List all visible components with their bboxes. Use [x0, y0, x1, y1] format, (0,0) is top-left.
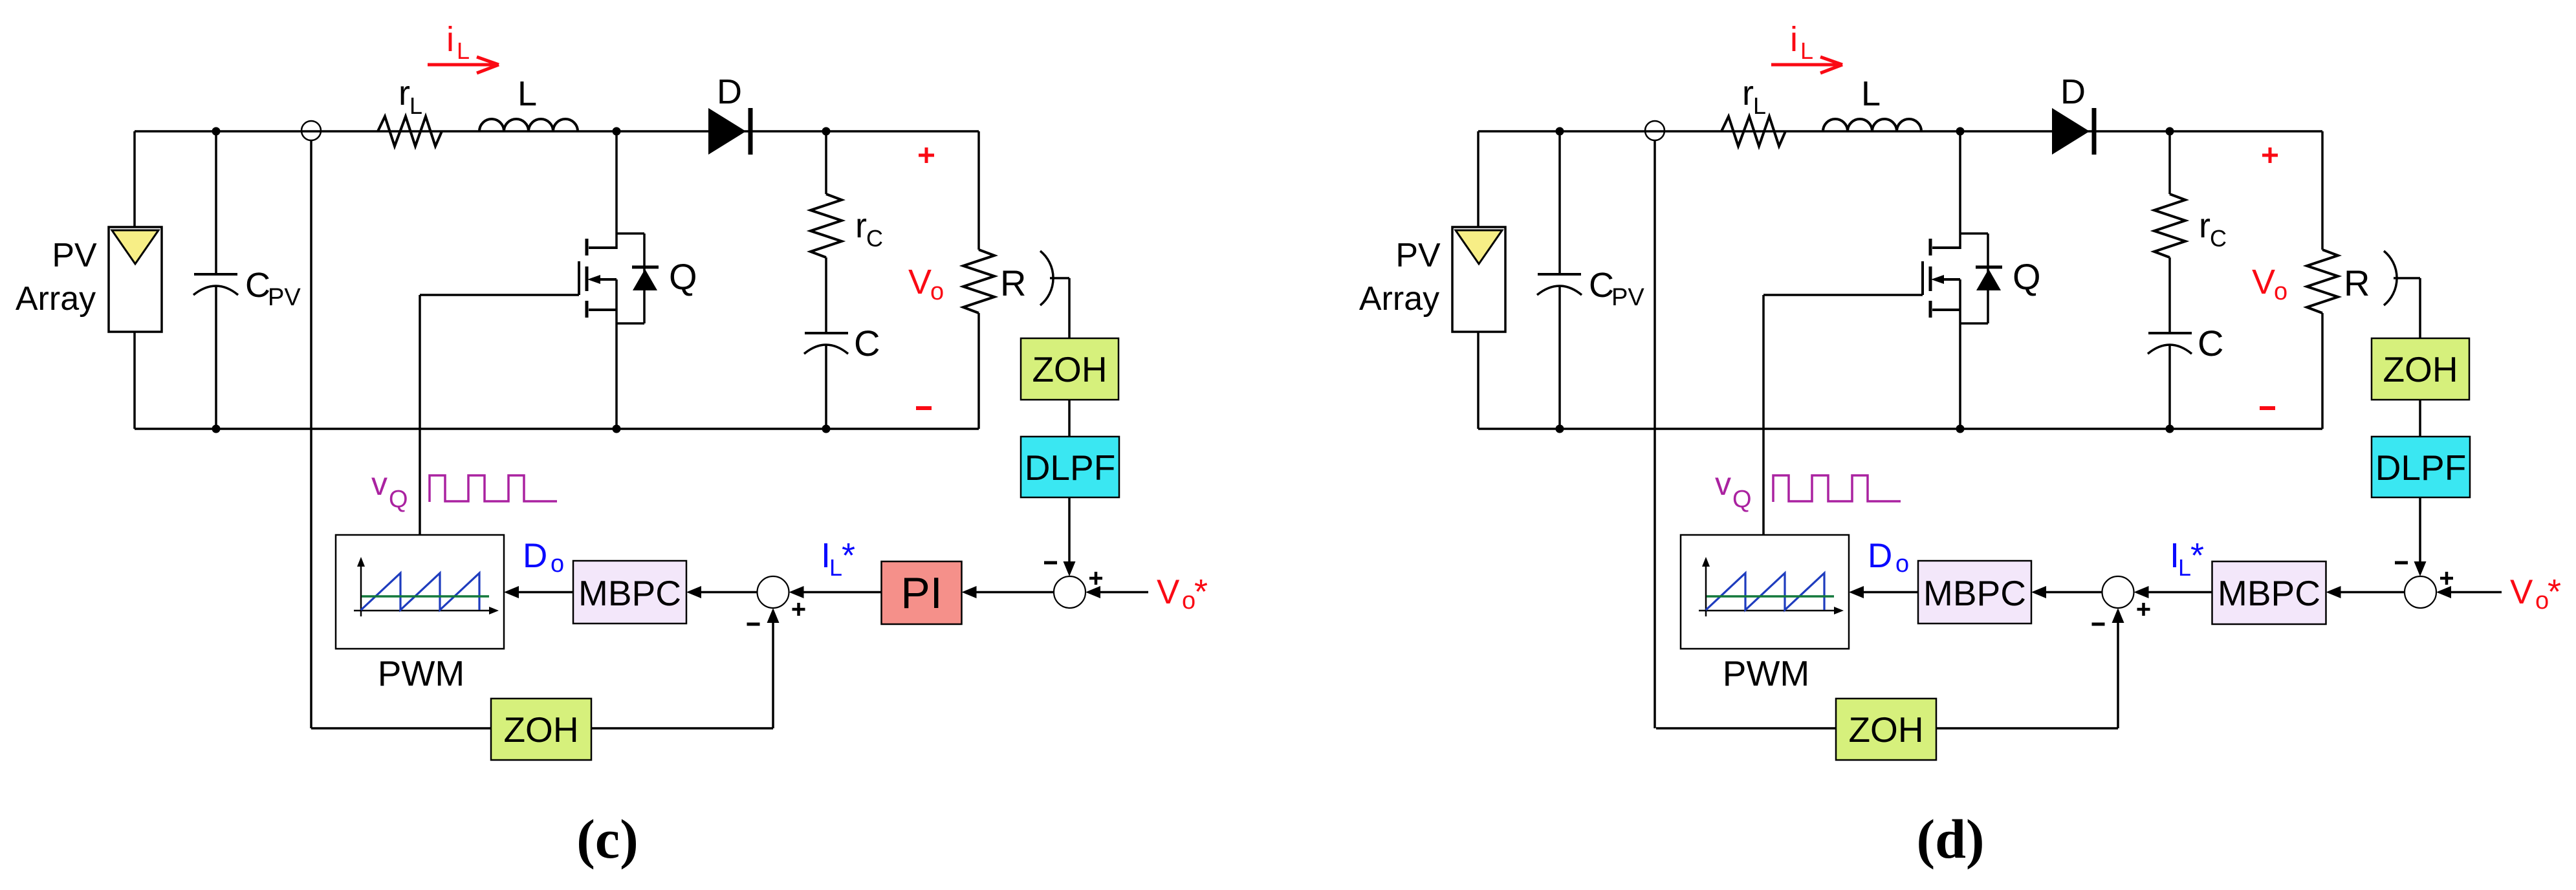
svg-text:Q: Q: [389, 486, 408, 513]
svg-text:Array: Array: [16, 280, 96, 318]
svg-text:D: D: [1868, 537, 1892, 575]
svg-text:ZOH: ZOH: [503, 710, 578, 750]
svg-text:PV: PV: [1611, 284, 1644, 311]
svg-text:r: r: [855, 206, 867, 245]
svg-text:V: V: [2252, 263, 2275, 301]
svg-text:D: D: [523, 537, 547, 575]
svg-text:L: L: [2178, 554, 2191, 581]
svg-text:C: C: [2210, 225, 2227, 252]
svg-text:DLPF: DLPF: [1025, 448, 1116, 488]
svg-text:i: i: [446, 20, 454, 59]
svg-text:o: o: [551, 550, 564, 578]
svg-text:L: L: [409, 92, 422, 119]
svg-text:Array: Array: [1359, 280, 1439, 318]
svg-text:C: C: [866, 225, 883, 252]
svg-text:r: r: [1742, 74, 1754, 113]
svg-text:MBPC: MBPC: [578, 573, 681, 613]
svg-text:o: o: [1895, 550, 1909, 578]
svg-text:Q: Q: [669, 256, 697, 297]
svg-text:PV: PV: [268, 284, 301, 311]
svg-text:L: L: [518, 74, 537, 113]
svg-text:Q: Q: [1732, 486, 1752, 513]
svg-text:PI: PI: [901, 569, 942, 618]
svg-text:L: L: [1753, 92, 1766, 119]
svg-text:R: R: [2344, 263, 2370, 303]
svg-text:MBPC: MBPC: [1923, 573, 2026, 613]
svg-text:o: o: [1182, 587, 1195, 614]
svg-text:L: L: [829, 554, 842, 581]
svg-text:PV: PV: [1395, 237, 1441, 274]
svg-text:o: o: [2535, 587, 2549, 614]
svg-text:PWM: PWM: [378, 653, 464, 693]
svg-text:o: o: [930, 278, 944, 305]
svg-text:Q: Q: [2013, 256, 2041, 297]
svg-text:v: v: [1715, 466, 1731, 502]
svg-text:ZOH: ZOH: [1848, 710, 1923, 750]
svg-text:(d): (d): [1916, 808, 1984, 870]
svg-text:*: *: [2190, 536, 2204, 575]
svg-text:ZOH: ZOH: [1032, 349, 1107, 389]
svg-text:L: L: [457, 38, 470, 64]
svg-text:V: V: [1157, 573, 1180, 611]
svg-text:PV: PV: [52, 237, 97, 274]
svg-text:ZOH: ZOH: [2383, 349, 2458, 389]
svg-text:*: *: [2548, 572, 2561, 611]
svg-text:i: i: [1790, 20, 1798, 59]
svg-text:L: L: [1861, 74, 1881, 113]
svg-text:C: C: [854, 323, 880, 364]
svg-text:V: V: [2510, 573, 2533, 611]
svg-text:R: R: [1000, 263, 1026, 303]
svg-text:PWM: PWM: [1723, 653, 1809, 693]
svg-text:*: *: [842, 536, 855, 575]
svg-text:*: *: [1194, 572, 1208, 611]
svg-text:D: D: [717, 72, 742, 111]
svg-text:C: C: [1589, 266, 1614, 305]
svg-text:V: V: [908, 263, 932, 301]
svg-text:D: D: [2060, 72, 2086, 111]
svg-text:v: v: [371, 466, 387, 502]
svg-text:o: o: [2274, 278, 2287, 305]
svg-text:L: L: [1800, 38, 1813, 64]
svg-text:C: C: [245, 266, 270, 305]
svg-text:(c): (c): [576, 808, 638, 870]
svg-text:DLPF: DLPF: [2375, 448, 2467, 488]
svg-text:r: r: [2199, 206, 2210, 245]
svg-text:C: C: [2198, 323, 2223, 364]
svg-text:MBPC: MBPC: [2218, 573, 2320, 613]
svg-text:r: r: [398, 74, 410, 113]
